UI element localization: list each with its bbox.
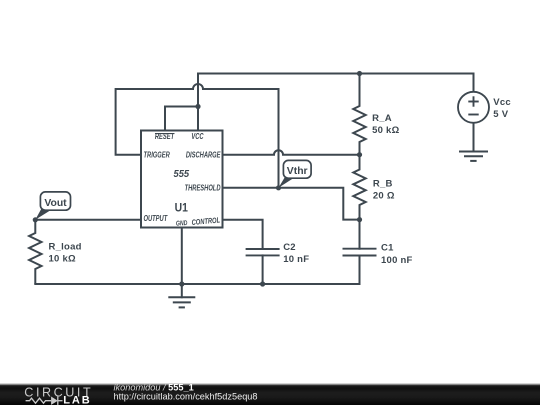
svg-text:GND: GND bbox=[176, 219, 188, 228]
svg-text:100 nF: 100 nF bbox=[381, 255, 413, 266]
svg-text:10 kΩ: 10 kΩ bbox=[49, 254, 76, 265]
svg-text:5 V: 5 V bbox=[493, 109, 508, 120]
svg-text:C2: C2 bbox=[283, 242, 296, 253]
svg-text:Vcc: Vcc bbox=[493, 97, 511, 108]
svg-text:RESET: RESET bbox=[155, 133, 175, 141]
svg-text:Vthr: Vthr bbox=[287, 166, 308, 177]
svg-text:THRESHOLD: THRESHOLD bbox=[185, 185, 221, 193]
svg-text:10 nF: 10 nF bbox=[283, 254, 309, 265]
svg-text:TRIGGER: TRIGGER bbox=[144, 152, 170, 160]
svg-text:555: 555 bbox=[174, 168, 190, 180]
svg-text:http://circuitlab.com/cekhf5dz: http://circuitlab.com/cekhf5dz5equ8 bbox=[114, 392, 258, 402]
svg-text:LAB: LAB bbox=[63, 395, 91, 405]
svg-text:Vout: Vout bbox=[44, 198, 67, 209]
svg-text:C1: C1 bbox=[381, 242, 394, 253]
svg-text:VCC: VCC bbox=[191, 133, 204, 141]
svg-text:50 kΩ: 50 kΩ bbox=[372, 125, 399, 136]
svg-text:R_B: R_B bbox=[373, 178, 393, 189]
svg-text:U1: U1 bbox=[175, 202, 188, 215]
svg-text:DISCHARGE: DISCHARGE bbox=[186, 152, 221, 160]
svg-text:20 Ω: 20 Ω bbox=[373, 191, 395, 202]
svg-text:R_A: R_A bbox=[372, 113, 392, 124]
svg-text:R_load: R_load bbox=[49, 242, 82, 253]
svg-text:OUTPUT: OUTPUT bbox=[144, 216, 168, 224]
